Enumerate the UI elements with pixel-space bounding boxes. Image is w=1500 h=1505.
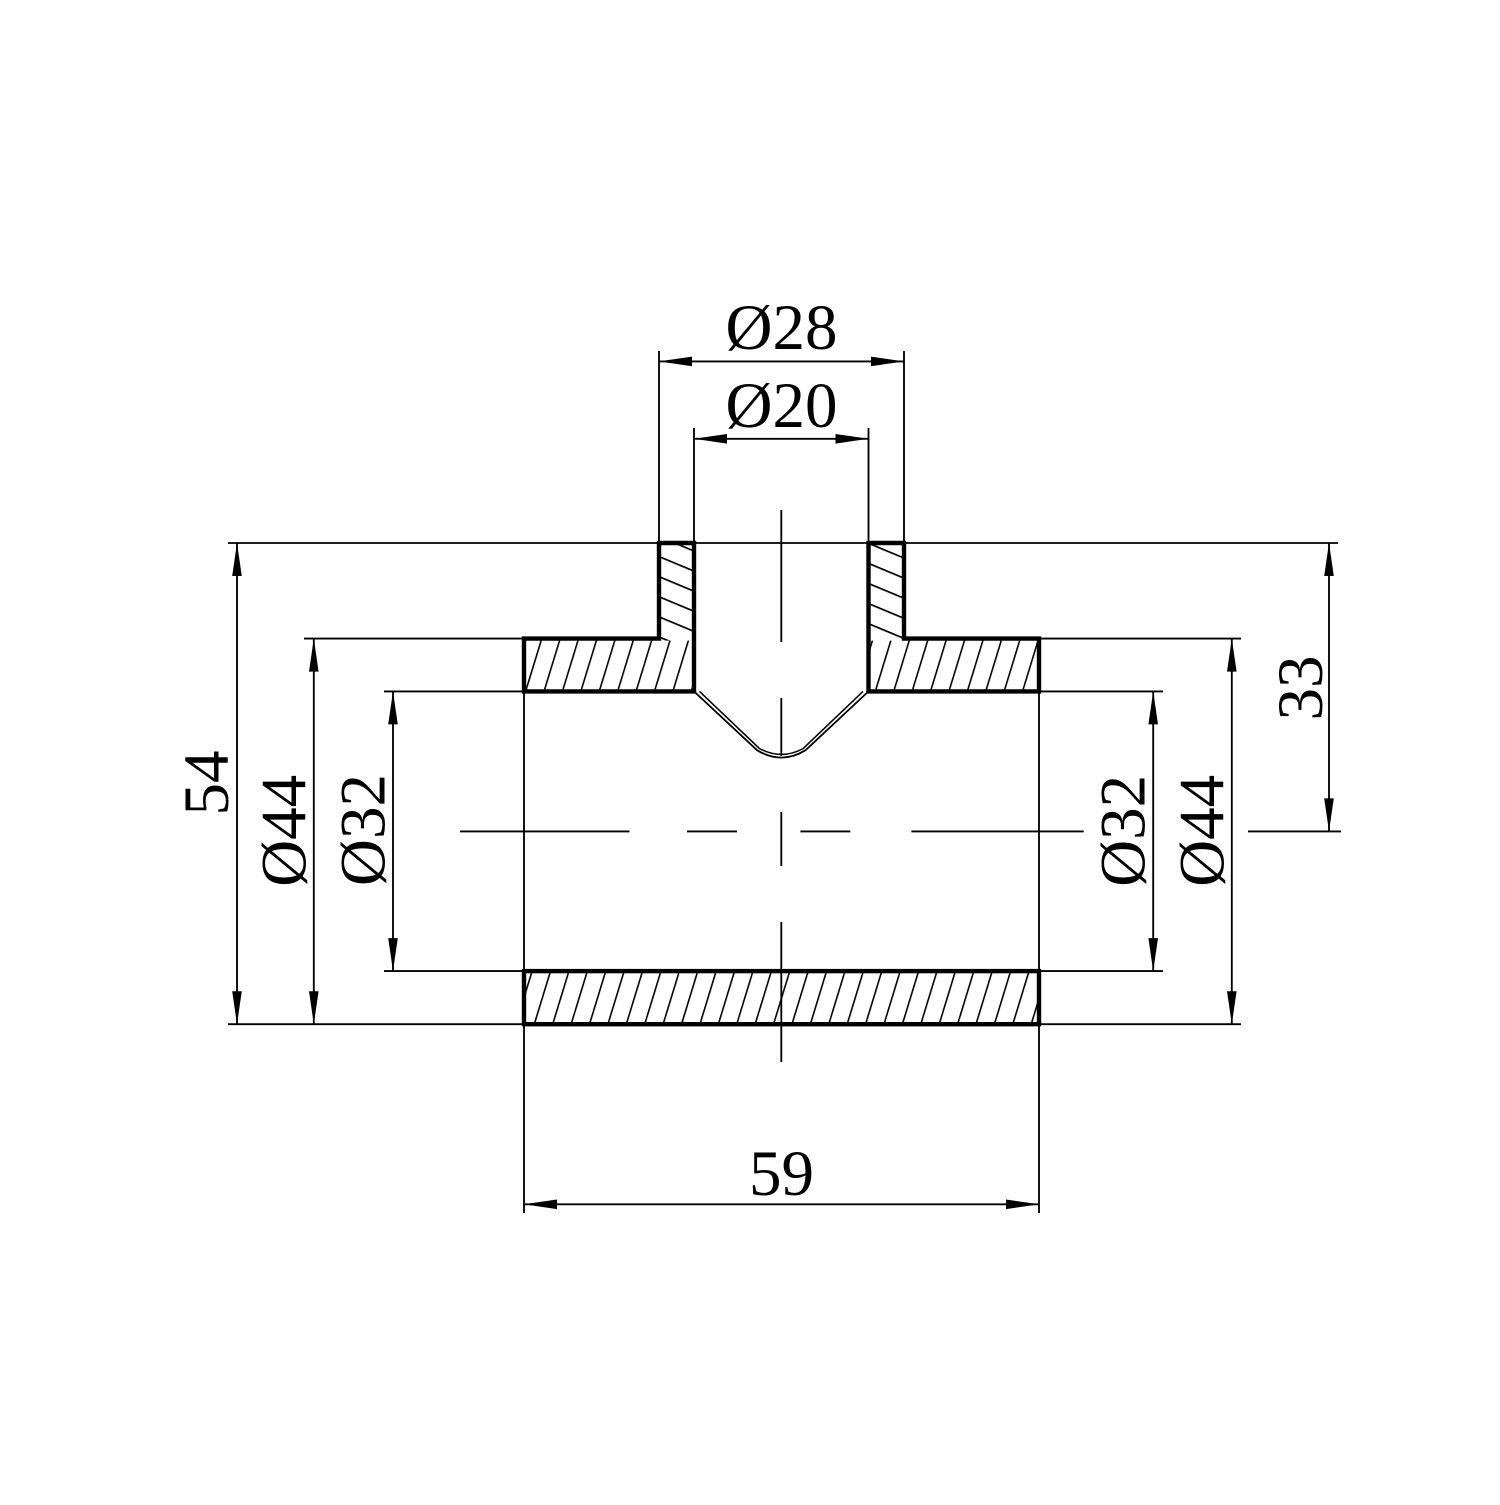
centerline horizontal xyxy=(460,830,1084,832)
arrow 54 top xyxy=(232,543,242,576)
extension line y638.6 left xyxy=(304,638,524,640)
V chamfer outer line xyxy=(694,691,869,757)
arrow Ø44R bottom xyxy=(1227,991,1237,1024)
svg-text:59: 59 xyxy=(749,1138,814,1210)
arrow 59 right xyxy=(1006,1200,1039,1210)
arrow Ø32R top xyxy=(1148,691,1158,724)
outline left L section xyxy=(524,543,694,691)
arrow 54 bottom xyxy=(232,991,242,1024)
dimension Ø44 left line xyxy=(313,639,315,1025)
dimension 33 line xyxy=(1328,543,1330,831)
dimension 54 line xyxy=(236,543,238,1024)
dimension 59 line xyxy=(524,1203,1039,1205)
arrow Ø44R top xyxy=(1227,639,1237,672)
extension line y971.1 left xyxy=(384,970,524,972)
arrow Ø44L top xyxy=(309,639,319,672)
body right silhouette thin xyxy=(1038,691,1040,971)
arrow Ø20 left xyxy=(694,434,727,444)
extension line y1024.2 left xyxy=(228,1023,524,1025)
arrow 33 top xyxy=(1324,543,1334,576)
outline bottom strip xyxy=(524,971,1039,1024)
svg-text:33: 33 xyxy=(1265,656,1337,721)
dimension Ø32 left line xyxy=(392,691,394,971)
extension line x694 vertical xyxy=(693,428,695,543)
arrow 59 left xyxy=(524,1200,557,1210)
svg-text:Ø32: Ø32 xyxy=(328,774,400,886)
arrow 33 bottom xyxy=(1324,798,1334,831)
hatch right flange xyxy=(871,641,1038,690)
body left silhouette thin xyxy=(523,691,525,971)
extension line y691.4 left xyxy=(384,690,524,692)
extension line x904 vertical xyxy=(903,351,905,543)
hatch left flange xyxy=(526,641,692,690)
V chamfer inner line xyxy=(700,691,864,754)
extension line x1039 bottom xyxy=(1038,1026,1040,1213)
svg-text:54: 54 xyxy=(171,751,243,816)
svg-text:Ø44: Ø44 xyxy=(1167,775,1239,887)
svg-text:Ø20: Ø20 xyxy=(726,370,838,442)
extension line y543 horizontal xyxy=(228,542,1338,544)
arrow Ø32R bottom xyxy=(1148,938,1158,971)
extension line x524 bottom xyxy=(523,1026,525,1213)
hatch right wall xyxy=(871,545,903,641)
dimension Ø44 right line xyxy=(1231,639,1233,1025)
extension line x868.5 vertical xyxy=(868,428,870,543)
arrow Ø44L bottom xyxy=(309,991,319,1024)
arrow Ø28 right xyxy=(871,357,904,367)
svg-text:Ø32: Ø32 xyxy=(1088,775,1160,887)
extension line y971.1 right xyxy=(1039,970,1163,972)
arrow Ø32L top xyxy=(388,691,398,724)
centerline vertical xyxy=(780,510,782,1062)
extension line y1024.2 right xyxy=(1039,1023,1241,1025)
outline right L section xyxy=(869,543,1040,691)
dimension Ø28 line xyxy=(659,360,904,362)
hatch left wall xyxy=(661,545,692,641)
hatch bottom strip xyxy=(526,973,1037,1022)
svg-text:Ø28: Ø28 xyxy=(726,292,838,364)
dimension Ø20 line xyxy=(694,438,869,440)
arrow Ø28 left xyxy=(659,357,692,367)
dimension Ø32 right line xyxy=(1152,691,1154,971)
arrow Ø20 right xyxy=(836,434,869,444)
arrow Ø32L bottom xyxy=(388,938,398,971)
extension line x659 vertical xyxy=(658,351,660,543)
svg-text:Ø44: Ø44 xyxy=(249,775,321,887)
extension line y638.6 right xyxy=(1039,638,1241,640)
extension line y691.4 right xyxy=(1039,690,1163,692)
extension line y831.4 right stub xyxy=(1248,830,1341,832)
